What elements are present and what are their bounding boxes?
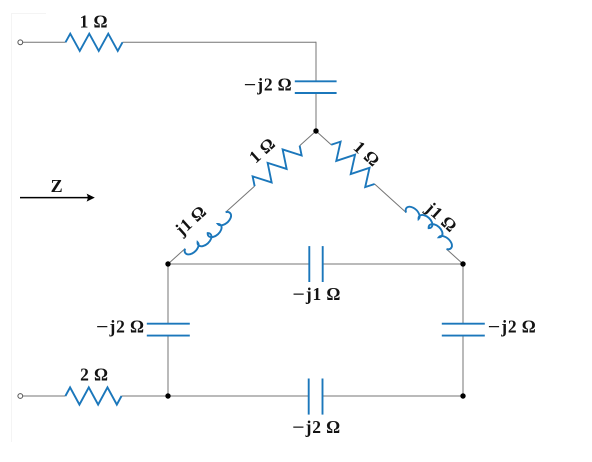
- svg-text:−j2 Ω: −j2 Ω: [244, 74, 293, 94]
- svg-text:Z: Z: [51, 176, 64, 196]
- svg-text:−j1 Ω: −j1 Ω: [292, 284, 341, 304]
- svg-text:2 Ω: 2 Ω: [80, 365, 109, 385]
- svg-text:−j2 Ω: −j2 Ω: [292, 417, 341, 437]
- svg-text:1 Ω: 1 Ω: [80, 12, 109, 32]
- svg-text:−j2 Ω: −j2 Ω: [96, 317, 145, 337]
- svg-text:−j2 Ω: −j2 Ω: [488, 317, 537, 337]
